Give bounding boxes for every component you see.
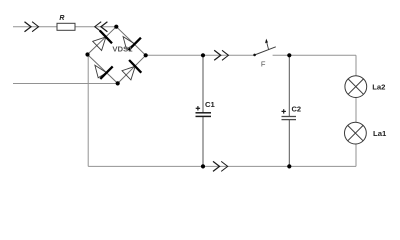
wire C2 branch upper <box>288 55 290 116</box>
switch F pivot <box>253 54 256 57</box>
svg-text:VDS1: VDS1 <box>112 45 133 54</box>
plus sign C2 <box>282 109 286 113</box>
node left of bridge <box>85 52 89 56</box>
wire resistor to bridge top node <box>75 26 117 28</box>
switch F blade <box>254 47 276 56</box>
svg-text:R: R <box>59 15 64 22</box>
wire C1 branch lower <box>202 116 204 166</box>
node top of bridge <box>114 25 118 29</box>
node right of bridge <box>144 53 148 57</box>
svg-text:F: F <box>261 60 266 69</box>
diode D2 (top to right) <box>123 37 141 51</box>
svg-text:C2: C2 <box>292 105 302 114</box>
svg-text:La2: La2 <box>372 82 385 91</box>
wire top input left segment <box>13 26 58 28</box>
diode D4 (bottom to right) <box>122 60 141 80</box>
capacitor C2 <box>282 117 297 120</box>
bridge diamond side left-bottom <box>88 55 118 84</box>
wire between lamps <box>355 98 357 123</box>
diode D3 (left to bottom) <box>95 65 113 79</box>
node C1 bottom junction <box>201 164 205 168</box>
wire lamp column bottom <box>355 144 357 166</box>
bridge diamond side top-right <box>116 27 145 56</box>
svg-text:C1: C1 <box>205 100 216 109</box>
node C2 top junction <box>287 53 291 57</box>
switch F actuator arrow <box>265 39 269 50</box>
bridge diamond side bottom-right <box>118 55 146 83</box>
wire bottom rail <box>88 165 356 167</box>
connector chevrons on positive rail pointing right <box>214 50 228 60</box>
resistor R <box>57 23 75 30</box>
node C1 top junction <box>201 53 205 57</box>
wire C1 branch upper <box>202 55 204 113</box>
connector chevrons on bottom rail pointing right <box>213 161 228 171</box>
wire C2 branch lower <box>288 120 290 167</box>
wire lamp column top <box>355 55 357 75</box>
node bottom of bridge <box>116 81 120 85</box>
wire bridge right node to switch <box>146 54 254 56</box>
wire lower AC input <box>13 83 118 85</box>
plus sign C1 <box>196 106 200 110</box>
bridge diamond side left-top <box>88 27 117 55</box>
lamp La1 <box>345 122 367 144</box>
svg-text:La1: La1 <box>373 129 387 138</box>
lamp La2 <box>345 76 367 98</box>
diode D1 (left to top) <box>93 31 112 51</box>
wire left vertical from bridge left node to bottom rail <box>87 55 89 167</box>
connector chevrons input pair pointing right <box>25 22 39 32</box>
connector chevrons before bridge pointing left <box>95 22 108 32</box>
capacitor C1 <box>196 113 212 117</box>
node C2 bottom junction <box>287 164 291 168</box>
wire switch to lamp column <box>273 54 356 56</box>
